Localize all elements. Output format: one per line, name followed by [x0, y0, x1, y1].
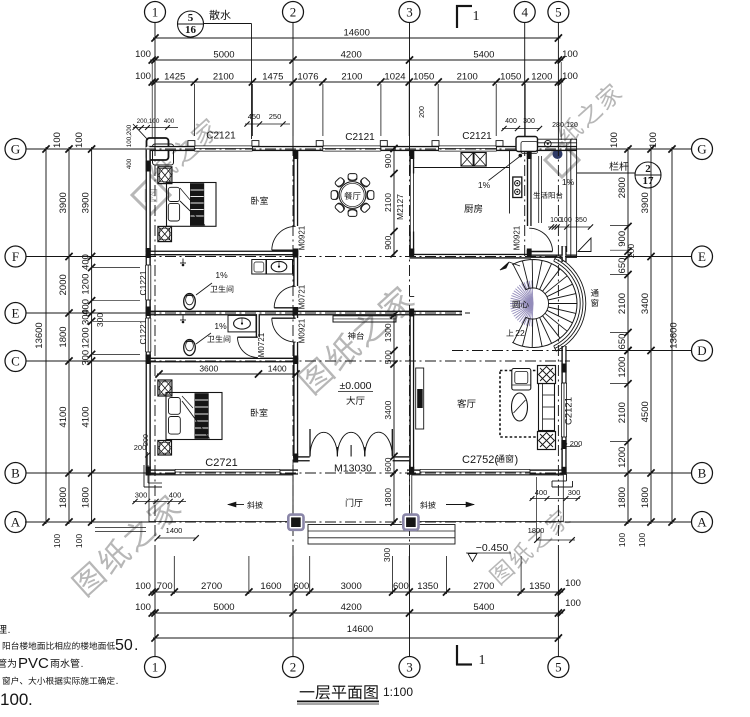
svg-text:M0721: M0721 [257, 332, 266, 357]
svg-text:2: 2 [290, 660, 297, 675]
svg-text:3900: 3900 [640, 192, 651, 213]
svg-text:400: 400 [164, 118, 175, 125]
svg-text:2100: 2100 [617, 402, 628, 423]
svg-text:1800: 1800 [81, 487, 92, 508]
svg-text:1: 1 [479, 653, 486, 668]
svg-text:1200: 1200 [531, 72, 552, 83]
svg-text:300: 300 [135, 491, 148, 500]
svg-text:300: 300 [81, 350, 92, 366]
svg-text:M0921: M0921 [513, 225, 522, 250]
svg-text:350: 350 [575, 217, 587, 224]
svg-text:2800: 2800 [617, 177, 628, 198]
svg-text:22: 22 [515, 328, 525, 338]
walls [146, 146, 578, 151]
svg-text:200: 200 [134, 443, 147, 452]
svg-text:100: 100 [648, 132, 659, 148]
svg-text:5: 5 [555, 5, 562, 20]
svg-text:1200: 1200 [81, 274, 92, 295]
svg-text:1200: 1200 [81, 327, 92, 348]
svg-text:1400: 1400 [166, 526, 183, 535]
svg-text:50: 50 [115, 637, 133, 654]
svg-text:C2121: C2121 [345, 132, 375, 143]
watermarks [132, 176, 170, 214]
svg-text:5: 5 [188, 12, 194, 24]
svg-text:1800: 1800 [640, 487, 651, 508]
svg-text:700: 700 [157, 581, 173, 592]
svg-text:2100: 2100 [617, 293, 628, 314]
svg-text:C2121: C2121 [564, 397, 575, 425]
svg-text:.: . [8, 625, 11, 636]
svg-text:1050: 1050 [500, 72, 521, 83]
svg-text:100: 100 [0, 690, 28, 709]
svg-text:3: 3 [406, 5, 413, 20]
svg-text:100: 100 [135, 49, 151, 60]
svg-text:1350: 1350 [417, 581, 438, 592]
svg-text:D: D [697, 343, 706, 358]
svg-text:4500: 4500 [640, 401, 651, 422]
notes and title [0, 625, 7, 633]
svg-text:5400: 5400 [473, 50, 494, 61]
svg-text:100: 100 [52, 132, 63, 148]
svg-text:4100: 4100 [81, 406, 92, 427]
svg-text:3000: 3000 [341, 581, 362, 592]
svg-text:1400: 1400 [268, 364, 287, 374]
svg-text:100: 100 [74, 534, 84, 548]
svg-text:500: 500 [383, 350, 393, 364]
svg-text:14600: 14600 [347, 624, 373, 635]
svg-text:900: 900 [383, 235, 393, 249]
svg-text:G: G [697, 142, 706, 157]
svg-text:600: 600 [293, 581, 309, 592]
svg-text:M0721: M0721 [298, 284, 307, 309]
svg-text:13600: 13600 [34, 322, 45, 348]
svg-text:100: 100 [135, 581, 151, 592]
svg-text:100,200: 100,200 [126, 124, 133, 147]
svg-text:2700: 2700 [201, 581, 222, 592]
svg-text:E: E [12, 306, 20, 321]
svg-text:900: 900 [383, 154, 393, 168]
svg-text:100: 100 [74, 132, 85, 148]
svg-text:200: 200 [419, 106, 426, 118]
svg-text:1:100: 1:100 [383, 685, 413, 699]
svg-text:M2127: M2127 [395, 194, 405, 220]
svg-text:600: 600 [383, 457, 393, 471]
svg-text:1200: 1200 [617, 357, 628, 378]
svg-text:.: . [81, 659, 84, 670]
svg-text:300: 300 [382, 548, 392, 562]
svg-text:100: 100 [617, 533, 627, 547]
svg-text:16: 16 [185, 24, 197, 36]
svg-text:3: 3 [406, 660, 413, 675]
svg-text:100: 100 [565, 578, 581, 589]
svg-text:1350: 1350 [529, 581, 550, 592]
svg-text:2100: 2100 [383, 193, 393, 212]
svg-text:1600: 1600 [260, 581, 281, 592]
svg-text:17: 17 [643, 175, 655, 187]
svg-text:2000: 2000 [58, 274, 69, 295]
svg-text:4: 4 [521, 5, 528, 20]
svg-text:3400: 3400 [383, 400, 393, 419]
svg-text:C: C [11, 354, 20, 369]
svg-text:1800: 1800 [58, 326, 69, 347]
svg-text:1800: 1800 [58, 487, 69, 508]
svg-text:300: 300 [568, 488, 581, 497]
svg-text:5000: 5000 [213, 602, 234, 613]
svg-text:400: 400 [126, 158, 133, 169]
svg-text:C1221: C1221 [138, 270, 148, 295]
svg-text:1475: 1475 [262, 72, 283, 83]
svg-text:.: . [116, 676, 119, 687]
svg-text:1050: 1050 [413, 72, 434, 83]
svg-text:1: 1 [152, 5, 159, 20]
svg-text:1: 1 [473, 9, 480, 24]
svg-text:1200: 1200 [617, 447, 628, 468]
svg-text:±0.000: ±0.000 [339, 380, 371, 392]
svg-text:120: 120 [566, 122, 578, 129]
svg-text:2: 2 [645, 163, 651, 175]
svg-text:C2721: C2721 [205, 457, 237, 469]
svg-text:1425: 1425 [164, 72, 185, 83]
svg-text:300: 300 [523, 118, 535, 125]
svg-text:2100: 2100 [341, 72, 362, 83]
svg-text:2700: 2700 [473, 581, 494, 592]
svg-text:1800: 1800 [617, 487, 628, 508]
svg-text:100: 100 [562, 49, 578, 60]
svg-text:A: A [11, 515, 21, 530]
svg-text:A: A [697, 515, 707, 530]
doors [272, 249, 296, 251]
svg-text:C1221: C1221 [138, 319, 148, 344]
svg-text:100: 100 [135, 71, 151, 82]
svg-text:5000: 5000 [213, 50, 234, 61]
svg-text:13600: 13600 [669, 322, 680, 348]
svg-text:300: 300 [95, 313, 105, 327]
svg-text:4200: 4200 [341, 50, 362, 61]
svg-text:100: 100 [52, 534, 62, 548]
svg-text:4200: 4200 [341, 602, 362, 613]
furniture and labels [158, 167, 172, 184]
svg-text:): ) [515, 454, 519, 466]
svg-text:PVC: PVC [18, 655, 49, 672]
svg-text:650: 650 [617, 258, 628, 274]
svg-text:1: 1 [152, 660, 159, 675]
svg-text:1%: 1% [215, 270, 228, 280]
svg-text:100: 100 [560, 217, 572, 224]
svg-text:100: 100 [565, 598, 581, 609]
svg-text:300: 300 [81, 309, 92, 325]
svg-text:200: 200 [626, 244, 636, 258]
svg-text:1076: 1076 [297, 72, 318, 83]
svg-text:3400: 3400 [640, 293, 651, 314]
svg-text:B: B [698, 466, 707, 481]
svg-text:M0921: M0921 [298, 318, 307, 343]
svg-text:650: 650 [617, 334, 628, 350]
svg-text:280: 280 [552, 122, 564, 129]
svg-text:E: E [698, 249, 706, 264]
svg-text:2: 2 [290, 5, 297, 20]
svg-text:F: F [12, 249, 19, 264]
svg-text:1024: 1024 [384, 72, 405, 83]
svg-text:400: 400 [505, 118, 517, 125]
svg-text:600: 600 [393, 581, 409, 592]
svg-text:1800: 1800 [383, 488, 393, 507]
svg-text:M0921: M0921 [298, 225, 307, 250]
svg-text:.: . [28, 690, 33, 709]
svg-text:1300: 1300 [383, 323, 393, 342]
svg-text:1%: 1% [478, 180, 491, 190]
svg-text:4100: 4100 [58, 406, 69, 427]
svg-text:−0.450: −0.450 [476, 542, 509, 554]
svg-text:100: 100 [609, 132, 620, 148]
svg-text:M13030: M13030 [334, 463, 372, 475]
svg-text:450: 450 [248, 112, 261, 121]
svg-text:2100: 2100 [457, 72, 478, 83]
svg-text:C2121: C2121 [206, 131, 236, 142]
svg-text:3600: 3600 [199, 364, 218, 374]
svg-text:C2752(: C2752( [462, 454, 498, 466]
svg-text:3900: 3900 [81, 192, 92, 213]
svg-text:G: G [11, 142, 20, 157]
svg-text:200,100: 200,100 [137, 118, 160, 125]
svg-text:1800: 1800 [528, 526, 545, 535]
svg-text:1%: 1% [562, 177, 575, 187]
svg-text:3900: 3900 [58, 192, 69, 213]
svg-text:C2121: C2121 [462, 131, 492, 142]
svg-text:100: 100 [637, 533, 647, 547]
svg-text:5400: 5400 [473, 602, 494, 613]
svg-text:100: 100 [135, 602, 151, 613]
svg-text:B: B [11, 466, 20, 481]
svg-text:400: 400 [169, 491, 182, 500]
dimension rows top [153, 37, 560, 39]
svg-text:100: 100 [562, 71, 578, 82]
svg-text:1%: 1% [214, 321, 227, 331]
svg-text:2100: 2100 [213, 72, 234, 83]
svg-text:5: 5 [555, 660, 562, 675]
svg-text:.: . [134, 637, 138, 654]
svg-text:14600: 14600 [343, 28, 369, 39]
svg-text:250: 250 [269, 112, 282, 121]
